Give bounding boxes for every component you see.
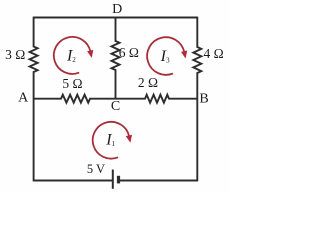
- svg-text:5 V: 5 V: [87, 162, 105, 176]
- wire middle rail A-C-B with resistor R4 5ohm and resistor R5 2ohm: [34, 95, 198, 103]
- battery V1 short thick plate: [117, 176, 120, 184]
- svg-text:I3: I3: [160, 48, 170, 65]
- mesh current loop I3 arrowhead: [181, 51, 187, 59]
- svg-text:A: A: [18, 91, 29, 106]
- svg-text:3 Ω: 3 Ω: [5, 47, 25, 62]
- mesh current loop I2 arc: [54, 37, 91, 74]
- svg-text:6 Ω: 6 Ω: [119, 45, 139, 60]
- mesh current loop I1 arrowhead: [126, 135, 132, 143]
- wire right branch with resistor R3 4ohm: [193, 17, 201, 182]
- svg-text:2 Ω: 2 Ω: [138, 75, 158, 90]
- mesh current loop I1 arc: [93, 122, 129, 159]
- wire bottom right of battery: [119, 180, 197, 182]
- svg-text:B: B: [199, 92, 208, 107]
- mesh current loop I3 arc: [147, 37, 184, 75]
- svg-text:D: D: [112, 2, 122, 17]
- svg-text:5 Ω: 5 Ω: [62, 76, 82, 91]
- wire bottom left of battery: [34, 180, 113, 182]
- wire top D rail: [34, 17, 198, 19]
- wire middle branch D-C with resistor R2 6ohm: [112, 18, 120, 99]
- svg-text:4 Ω: 4 Ω: [204, 46, 224, 61]
- svg-text:I1: I1: [105, 131, 115, 148]
- svg-text:C: C: [111, 99, 120, 114]
- svg-text:I2: I2: [66, 47, 76, 64]
- wire left branch with resistor R1 3ohm: [30, 17, 38, 182]
- mesh current loop I2 arrowhead: [87, 50, 93, 58]
- battery V1 long plate: [112, 170, 114, 189]
